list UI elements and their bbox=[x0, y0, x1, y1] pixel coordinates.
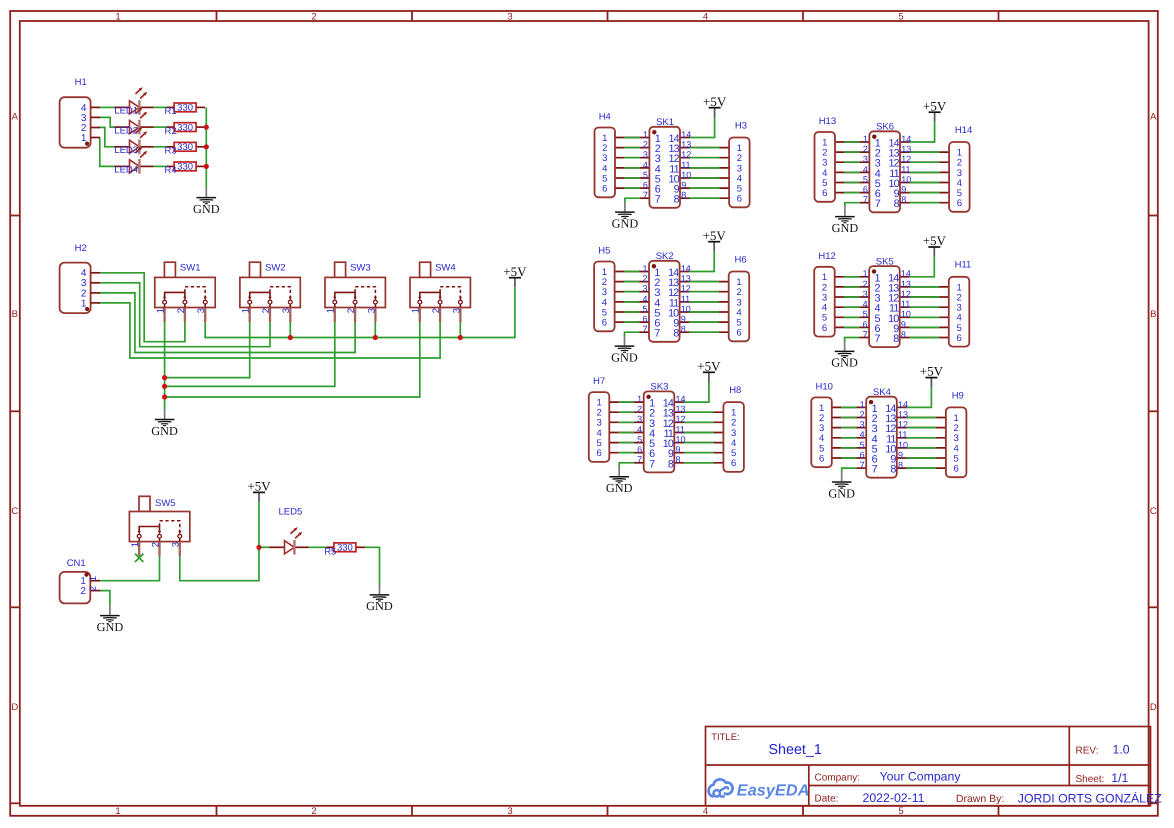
svg-text:SW4: SW4 bbox=[435, 263, 456, 274]
svg-text:H2: H2 bbox=[75, 243, 87, 254]
svg-text:2022-02-11: 2022-02-11 bbox=[863, 791, 925, 805]
svg-text:CN1: CN1 bbox=[67, 558, 86, 569]
svg-text:2: 2 bbox=[311, 806, 316, 817]
svg-text:R3: R3 bbox=[165, 146, 177, 157]
svg-text:B: B bbox=[1150, 309, 1156, 320]
svg-text:R2: R2 bbox=[165, 126, 177, 137]
svg-text:Sheet_1: Sheet_1 bbox=[769, 742, 822, 758]
svg-text:1.0: 1.0 bbox=[1113, 742, 1130, 756]
svg-text:Date:: Date: bbox=[815, 794, 839, 805]
svg-text:5: 5 bbox=[898, 806, 903, 817]
svg-text:H8: H8 bbox=[729, 385, 741, 396]
svg-text:4: 4 bbox=[703, 11, 708, 22]
svg-text:C: C bbox=[11, 506, 18, 517]
svg-text:3: 3 bbox=[507, 806, 512, 817]
svg-text:3: 3 bbox=[507, 11, 512, 22]
svg-text:H12: H12 bbox=[818, 251, 835, 262]
svg-text:LED4: LED4 bbox=[114, 165, 138, 176]
svg-text:A: A bbox=[12, 112, 19, 123]
svg-text:1: 1 bbox=[115, 11, 120, 22]
svg-text:2: 2 bbox=[311, 11, 316, 22]
svg-text:H10: H10 bbox=[816, 381, 833, 392]
svg-text:LED2: LED2 bbox=[114, 125, 138, 136]
svg-text:1: 1 bbox=[115, 806, 120, 817]
svg-text:1/1: 1/1 bbox=[1111, 771, 1128, 785]
svg-text:H6: H6 bbox=[735, 254, 747, 265]
svg-text:LED1: LED1 bbox=[114, 106, 138, 117]
svg-text:SK2: SK2 bbox=[656, 251, 674, 262]
svg-text:REV:: REV: bbox=[1076, 745, 1099, 756]
svg-text:LED5: LED5 bbox=[279, 507, 303, 518]
svg-text:SK5: SK5 bbox=[876, 256, 894, 267]
svg-text:C: C bbox=[1150, 506, 1157, 517]
svg-text:JORDI ORTS GONZÁLEZ: JORDI ORTS GONZÁLEZ bbox=[1018, 792, 1162, 806]
svg-text:LED3: LED3 bbox=[114, 145, 138, 156]
svg-text:Sheet:: Sheet: bbox=[1076, 774, 1105, 785]
svg-text:R5: R5 bbox=[324, 547, 336, 558]
svg-text:D: D bbox=[1150, 702, 1157, 713]
svg-text:H7: H7 bbox=[593, 376, 605, 387]
svg-text:H1: H1 bbox=[75, 77, 87, 88]
svg-text:SK3: SK3 bbox=[650, 382, 668, 393]
svg-text:A: A bbox=[1150, 112, 1157, 123]
svg-text:R4: R4 bbox=[165, 165, 177, 176]
svg-text:5: 5 bbox=[898, 11, 903, 22]
svg-text:H14: H14 bbox=[955, 125, 972, 136]
svg-text:H5: H5 bbox=[598, 246, 610, 257]
svg-text:EasyEDA: EasyEDA bbox=[737, 782, 810, 800]
svg-text:H9: H9 bbox=[952, 390, 964, 401]
svg-text:R1: R1 bbox=[165, 106, 177, 117]
svg-text:SK4: SK4 bbox=[873, 387, 891, 398]
svg-text:H4: H4 bbox=[599, 112, 611, 123]
svg-text:SW1: SW1 bbox=[180, 263, 201, 274]
svg-text:TITLE:: TITLE: bbox=[711, 732, 740, 743]
svg-text:D: D bbox=[11, 702, 18, 713]
svg-text:H13: H13 bbox=[819, 116, 836, 127]
svg-text:H3: H3 bbox=[735, 120, 747, 131]
svg-text:SK6: SK6 bbox=[876, 122, 894, 133]
svg-text:4: 4 bbox=[703, 806, 708, 817]
svg-text:B: B bbox=[12, 309, 18, 320]
svg-text:SK1: SK1 bbox=[656, 117, 674, 128]
svg-text:H11: H11 bbox=[955, 260, 972, 271]
svg-text:Company:: Company: bbox=[815, 772, 861, 783]
svg-text:SW2: SW2 bbox=[265, 263, 286, 274]
svg-text:Drawn By:: Drawn By: bbox=[956, 793, 1004, 805]
svg-text:SW3: SW3 bbox=[350, 263, 371, 274]
svg-text:Your Company: Your Company bbox=[880, 769, 962, 783]
svg-text:SW5: SW5 bbox=[155, 498, 176, 509]
